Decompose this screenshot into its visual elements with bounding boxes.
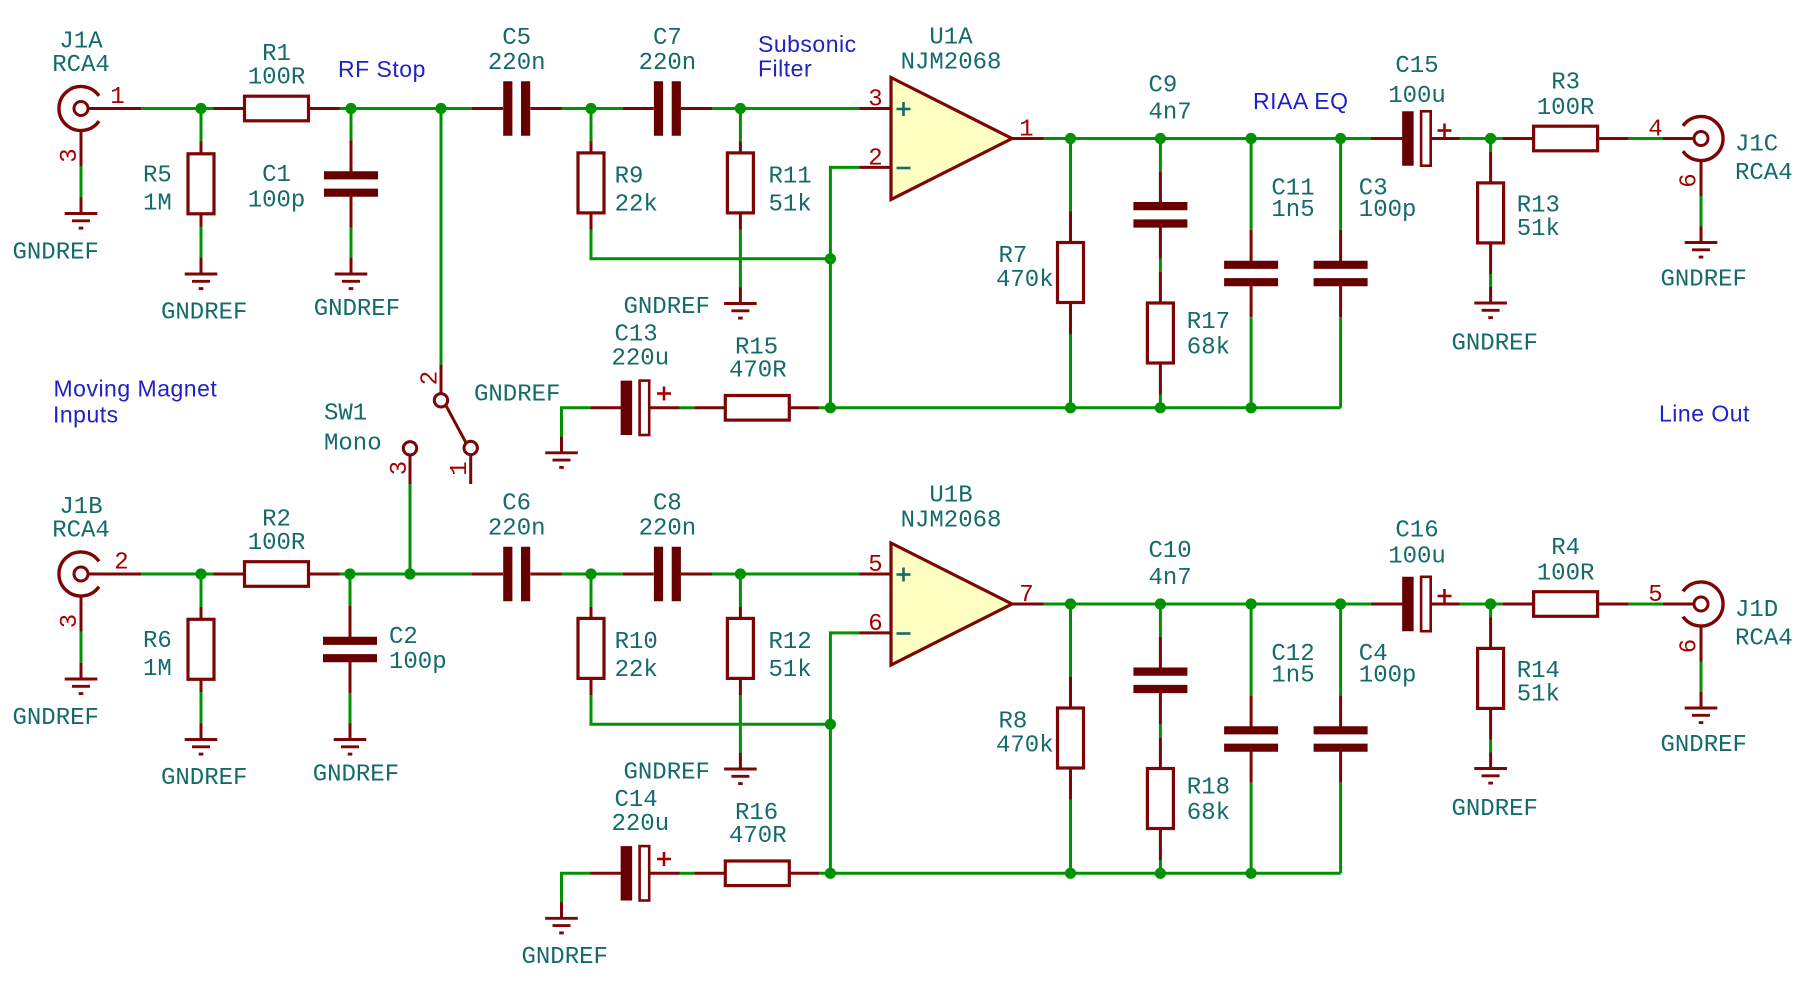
svg-text:Line Out: Line Out [1659, 401, 1750, 427]
wire [1069, 800, 1072, 874]
svg-text:3: 3 [868, 87, 882, 114]
svg-text:100R: 100R [248, 65, 306, 92]
svg-text:4n7: 4n7 [1149, 565, 1192, 592]
node mid junction [585, 103, 596, 114]
connector J1A [52, 29, 141, 167]
svg-text:GNDREF: GNDREF [161, 765, 247, 792]
wire [349, 693, 352, 724]
resistor R2 [214, 507, 340, 587]
wire [350, 228, 353, 259]
svg-text:470k: 470k [996, 267, 1054, 294]
svg-text:220n: 220n [488, 516, 546, 543]
node plus-input junction [735, 103, 746, 114]
svg-text:22k: 22k [615, 657, 658, 684]
node junction [1155, 133, 1166, 144]
resistor R17 [1147, 272, 1230, 395]
svg-text:5: 5 [868, 552, 882, 579]
svg-text:100p: 100p [1359, 197, 1417, 224]
wire [1460, 137, 1491, 140]
svg-text:GNDREF: GNDREF [1452, 331, 1538, 358]
svg-text:GNDREF: GNDREF [1661, 267, 1747, 294]
svg-text:1n5: 1n5 [1271, 662, 1314, 689]
resistor R1 [214, 41, 340, 121]
node R9 feedback junction [825, 719, 836, 730]
svg-text:220n: 220n [639, 50, 697, 77]
wire [200, 227, 203, 259]
svg-text:51k: 51k [769, 657, 812, 684]
svg-text:R18: R18 [1187, 775, 1230, 802]
wire output net [1044, 137, 1372, 140]
svg-text:4n7: 4n7 [1149, 100, 1192, 127]
svg-text:100p: 100p [389, 649, 447, 676]
node junction [1246, 868, 1257, 879]
ground [624, 288, 757, 322]
wire [200, 692, 203, 724]
svg-text:RCA4: RCA4 [52, 52, 110, 79]
capacitor C16 [1371, 518, 1460, 632]
capacitor C11 [1224, 139, 1315, 318]
svg-text:GNDREF: GNDREF [314, 296, 400, 323]
node junction [1065, 868, 1076, 879]
svg-text:100R: 100R [1537, 95, 1595, 122]
wire [1250, 783, 1253, 874]
node junction [1246, 402, 1257, 413]
wire [739, 230, 742, 288]
resistor R18 [1147, 737, 1230, 860]
wire [1489, 740, 1492, 754]
svg-text:R3: R3 [1551, 70, 1580, 97]
svg-text:GNDREF: GNDREF [624, 294, 710, 321]
svg-text:NJM2068: NJM2068 [901, 50, 1002, 77]
capacitor C5 [472, 25, 562, 136]
capacitor C2 [323, 574, 447, 693]
wire [562, 873, 591, 902]
node R15 feedback junction [825, 868, 836, 879]
wire [409, 484, 412, 574]
wire [1159, 259, 1162, 272]
wire [1629, 603, 1663, 606]
ground [474, 382, 578, 468]
wire [340, 107, 473, 110]
capacitor C7 [623, 25, 712, 136]
svg-text:GNDREF: GNDREF [13, 705, 99, 732]
node junction [1335, 598, 1346, 609]
capacitor C6 [472, 491, 562, 602]
node junction [1155, 598, 1166, 609]
svg-text:R10: R10 [615, 629, 658, 656]
wire [1159, 395, 1162, 408]
ground [1661, 227, 1747, 294]
ground [13, 198, 99, 267]
ground [313, 724, 399, 789]
capacitor C10 [1133, 538, 1191, 724]
svg-text:RCA4: RCA4 [52, 518, 110, 545]
svg-text:C2: C2 [389, 624, 418, 651]
svg-text:C6: C6 [502, 491, 531, 518]
svg-text:R12: R12 [769, 629, 812, 656]
wire [591, 230, 830, 259]
svg-text:100R: 100R [1537, 561, 1595, 588]
resistor R16 [694, 800, 819, 886]
node RF junction [435, 103, 446, 114]
note Subsonic Filter [758, 31, 857, 82]
connector J1C [1648, 117, 1792, 197]
node output R junction [1485, 133, 1496, 144]
svg-text:Filter: Filter [758, 56, 812, 82]
capacitor C12 [1224, 604, 1315, 783]
wire [1159, 860, 1162, 873]
svg-text:R6: R6 [143, 628, 172, 655]
capacitor C4 [1314, 604, 1417, 783]
svg-text:470k: 470k [996, 733, 1054, 760]
svg-text:2: 2 [418, 371, 445, 385]
wire [591, 695, 830, 724]
resistor R5 [143, 109, 214, 227]
connector J1D [1648, 582, 1792, 662]
svg-text:RIAA EQ: RIAA EQ [1253, 88, 1349, 114]
svg-text:Subsonic: Subsonic [758, 31, 857, 57]
wire [1339, 317, 1342, 408]
ground [314, 258, 400, 323]
svg-text:J1D: J1D [1735, 597, 1778, 624]
capacitor C15 [1371, 53, 1460, 166]
node input junction [195, 568, 206, 579]
wire feedback net [830, 167, 859, 407]
ground [1452, 287, 1538, 358]
svg-text:GNDREF: GNDREF [1452, 796, 1538, 823]
note Moving Magnet Inputs [53, 376, 217, 428]
wire feedback net [830, 633, 859, 873]
resistor R15 [694, 334, 819, 420]
resistor R14 [1478, 604, 1560, 740]
wire [1339, 783, 1342, 874]
svg-text:3: 3 [57, 614, 84, 628]
svg-text:100p: 100p [1359, 662, 1417, 689]
resistor R9 [578, 109, 658, 230]
svg-text:51k: 51k [1517, 216, 1560, 243]
node mono junction [404, 568, 415, 579]
node junction [1246, 133, 1257, 144]
wire [1700, 196, 1703, 227]
wire [340, 573, 473, 576]
svg-text:R11: R11 [769, 164, 812, 191]
svg-text:R9: R9 [615, 164, 644, 191]
wire [680, 872, 695, 875]
svg-text:3: 3 [57, 148, 84, 162]
svg-text:4: 4 [1648, 117, 1662, 144]
resistor R13 [1478, 139, 1560, 275]
resistor R10 [578, 574, 658, 695]
svg-text:J1C: J1C [1735, 132, 1778, 159]
svg-text:U1A: U1A [929, 25, 973, 52]
svg-text:1: 1 [110, 84, 124, 111]
svg-text:C13: C13 [615, 321, 658, 348]
svg-text:RCA4: RCA4 [1735, 626, 1793, 653]
wire feedback rail [819, 406, 1340, 409]
svg-text:68k: 68k [1187, 800, 1230, 827]
op-amp U1A [860, 25, 1044, 200]
node junction [1155, 402, 1166, 413]
wire [1489, 274, 1492, 288]
svg-text:C8: C8 [653, 491, 682, 518]
node junction [1155, 868, 1166, 879]
svg-text:R7: R7 [999, 243, 1028, 270]
node junction [1065, 402, 1076, 413]
svg-text:1: 1 [447, 461, 474, 475]
node R9 feedback junction [825, 253, 836, 264]
svg-text:GNDREF: GNDREF [313, 762, 399, 789]
svg-text:470R: 470R [729, 823, 787, 850]
wire feedback rail [819, 872, 1340, 875]
resistor R12 [727, 574, 811, 695]
svg-text:6: 6 [1677, 639, 1704, 653]
wire [562, 107, 623, 110]
wire [80, 632, 83, 664]
svg-text:1n5: 1n5 [1271, 197, 1314, 224]
svg-text:100u: 100u [1388, 544, 1446, 571]
svg-text:GNDREF: GNDREF [13, 240, 99, 267]
node plus-input junction [735, 568, 746, 579]
node output R junction [1485, 598, 1496, 609]
wire [1069, 334, 1072, 408]
resistor R6 [143, 574, 214, 692]
svg-text:C16: C16 [1395, 518, 1438, 545]
wire [1700, 662, 1703, 693]
svg-text:Moving Magnet: Moving Magnet [54, 376, 218, 402]
resistor R7 [996, 139, 1084, 335]
capacitor C1 [248, 109, 378, 228]
svg-text:C10: C10 [1149, 538, 1192, 565]
node input junction [195, 103, 206, 114]
svg-text:U1B: U1B [929, 483, 972, 510]
svg-text:68k: 68k [1187, 335, 1230, 362]
wire [80, 166, 83, 198]
resistor R3 [1491, 70, 1629, 151]
ground [161, 724, 247, 793]
ground [522, 902, 608, 971]
op-amp U1B [860, 483, 1044, 666]
svg-text:SW1: SW1 [324, 401, 367, 428]
svg-text:Mono: Mono [324, 431, 382, 458]
svg-text:3: 3 [387, 461, 414, 475]
wire [712, 107, 860, 110]
svg-text:51k: 51k [1517, 682, 1560, 709]
svg-text:5: 5 [1648, 582, 1662, 609]
svg-text:220u: 220u [612, 811, 670, 838]
wire [1250, 317, 1253, 408]
switch SW1 [324, 365, 477, 484]
svg-text:1M: 1M [143, 656, 172, 683]
wire [712, 573, 860, 576]
svg-text:GNDREF: GNDREF [624, 760, 710, 787]
node junction [1335, 133, 1346, 144]
wire [440, 109, 443, 365]
svg-text:C14: C14 [615, 787, 658, 814]
svg-text:NJM2068: NJM2068 [901, 508, 1002, 535]
svg-text:220u: 220u [612, 345, 670, 372]
svg-text:220n: 220n [639, 516, 697, 543]
ground [161, 258, 247, 327]
svg-text:22k: 22k [615, 192, 658, 219]
svg-text:470R: 470R [729, 357, 787, 384]
wire [141, 107, 214, 110]
wire [562, 573, 623, 576]
wire [680, 406, 695, 409]
svg-text:C9: C9 [1149, 73, 1178, 100]
resistor R4 [1491, 535, 1629, 616]
svg-text:6: 6 [868, 611, 882, 638]
svg-text:7: 7 [1019, 582, 1033, 609]
capacitor C8 [623, 491, 712, 602]
svg-text:C5: C5 [502, 25, 531, 52]
capacitor C9 [1133, 73, 1191, 259]
svg-text:51k: 51k [769, 192, 812, 219]
ground [1661, 692, 1747, 759]
svg-text:100p: 100p [248, 188, 306, 215]
node R15 feedback junction [825, 402, 836, 413]
ground [1452, 753, 1538, 824]
svg-text:100R: 100R [248, 530, 306, 557]
ground [13, 663, 99, 732]
connector J1B [52, 494, 141, 632]
wire [1159, 724, 1162, 737]
svg-text:RCA4: RCA4 [1735, 160, 1793, 187]
resistor R8 [996, 604, 1084, 800]
svg-text:C1: C1 [262, 162, 291, 189]
ground [624, 753, 757, 787]
svg-text:GNDREF: GNDREF [522, 944, 608, 971]
node output junction [1065, 598, 1076, 609]
svg-text:R17: R17 [1187, 309, 1230, 336]
svg-text:2: 2 [868, 145, 882, 172]
wire [562, 408, 591, 437]
svg-text:RF Stop: RF Stop [338, 56, 426, 82]
node mid junction [585, 568, 596, 579]
node output junction [1065, 133, 1076, 144]
svg-text:GNDREF: GNDREF [474, 382, 560, 409]
node junction [1246, 598, 1257, 609]
resistor R11 [727, 109, 811, 230]
svg-text:220n: 220n [488, 50, 546, 77]
svg-text:2: 2 [114, 550, 128, 577]
capacitor C3 [1314, 139, 1417, 318]
capacitor C14 [591, 787, 680, 901]
svg-text:1: 1 [1019, 117, 1033, 144]
svg-text:GNDREF: GNDREF [161, 300, 247, 327]
svg-text:C15: C15 [1395, 53, 1438, 80]
svg-text:R4: R4 [1551, 535, 1580, 562]
wire output net [1044, 603, 1372, 606]
svg-text:100u: 100u [1388, 83, 1446, 110]
svg-text:1M: 1M [143, 191, 172, 218]
node C junction [344, 568, 355, 579]
wire [1460, 603, 1491, 606]
svg-text:R8: R8 [999, 709, 1028, 736]
wire [141, 573, 214, 576]
node C junction [345, 103, 356, 114]
svg-text:GNDREF: GNDREF [1661, 732, 1747, 759]
svg-text:6: 6 [1677, 173, 1704, 187]
wire [1629, 137, 1663, 140]
svg-text:R5: R5 [143, 163, 172, 190]
wire [739, 695, 742, 753]
svg-text:Inputs: Inputs [53, 402, 119, 428]
capacitor C13 [591, 321, 680, 435]
svg-text:C7: C7 [653, 25, 682, 52]
